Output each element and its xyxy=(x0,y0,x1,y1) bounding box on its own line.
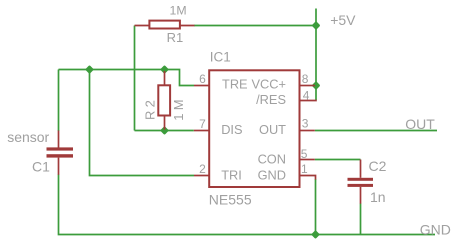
wire: pin 1 GND vertical down to rail xyxy=(315,179,317,235)
resistor R2 body xyxy=(158,85,170,115)
svg-text:VCC+: VCC+ xyxy=(252,77,287,92)
IC1 pin 8 stub (VCC+) xyxy=(300,85,316,87)
IC1 pin 3 stub (OUT) xyxy=(300,130,315,132)
svg-text:R2: R2 xyxy=(143,97,158,120)
IC1 pin 4 stub (/RES) xyxy=(300,100,317,102)
resistor R1 pins xyxy=(135,25,195,27)
resistor R2 pins xyxy=(164,71,166,130)
capacitor C2 plates xyxy=(348,178,374,181)
capacitor C1 top pin xyxy=(58,131,60,148)
svg-text:OUT: OUT xyxy=(405,116,435,132)
svg-text:2: 2 xyxy=(199,162,206,176)
svg-text:sensor: sensor xyxy=(7,129,49,145)
svg-text:GND: GND xyxy=(258,168,286,183)
svg-text:7: 7 xyxy=(199,117,206,131)
wire: CON pin 5 to C2 top xyxy=(315,159,361,161)
IC1 pin 2 stub (TRI) xyxy=(194,175,209,177)
wire: sensor rail y=69.5 with jog to pin 6 xyxy=(59,70,195,86)
svg-text:NE555: NE555 xyxy=(209,191,252,207)
svg-text:6: 6 xyxy=(199,72,206,86)
wire: +5V rail top horizontal (R1 right to +5V stub) xyxy=(194,25,316,27)
capacitor C2 top pin xyxy=(360,160,362,178)
junction: sensor rail to TRI xyxy=(85,65,94,74)
wire: DIS horizontal rail y=130.5 xyxy=(135,130,194,132)
svg-text:/RES: /RES xyxy=(256,92,286,107)
wire: +5V vertical stub xyxy=(315,9,317,86)
svg-text:8: 8 xyxy=(302,72,309,86)
IC1 pin 5 stub (CON) xyxy=(300,159,315,161)
svg-text:TRI: TRI xyxy=(221,168,242,183)
svg-text:4: 4 xyxy=(303,89,310,103)
junction: R1 right / +5V xyxy=(312,21,321,30)
svg-text:OUT: OUT xyxy=(259,122,286,137)
capacitor C2 bottom pin xyxy=(360,187,362,204)
svg-text:+5V: +5V xyxy=(330,12,356,28)
svg-text:1: 1 xyxy=(301,162,308,176)
wire: C1 bottom to GND rail xyxy=(59,175,436,235)
svg-text:GND: GND xyxy=(420,221,451,237)
svg-text:5: 5 xyxy=(301,147,308,161)
IC1 pin 6 stub (TRE) xyxy=(194,85,209,87)
svg-text:1n: 1n xyxy=(370,189,386,205)
svg-text:CON: CON xyxy=(258,152,286,167)
junction: R2 bottom / DIS xyxy=(160,126,169,135)
wire: C2 bottom vertical to GND rail xyxy=(360,204,362,235)
wire: OUT from pin 3 xyxy=(315,130,437,132)
junction: VCC pin 8 xyxy=(312,81,321,90)
svg-text:1M: 1M xyxy=(171,96,186,120)
svg-text:3: 3 xyxy=(302,116,309,130)
junction: pin1 to GND rail xyxy=(311,230,320,239)
wire: +5V vertical junction to pin4 xyxy=(315,85,317,100)
capacitor C1 plates xyxy=(47,147,74,150)
wire: C1 top vertical xyxy=(58,70,60,132)
op-amp/IC U1: NE555 body IC1 xyxy=(209,70,299,187)
IC1 pin 7 stub (DIS) xyxy=(194,130,209,132)
wire: junction to TRI pin 2 xyxy=(90,70,195,176)
svg-text:IC1: IC1 xyxy=(210,50,231,65)
svg-text:C2: C2 xyxy=(369,158,387,174)
svg-text:TRE: TRE xyxy=(222,77,248,92)
junction: R2 top xyxy=(160,65,169,74)
capacitor C1 bottom pin xyxy=(58,158,60,175)
svg-text:DIS: DIS xyxy=(221,122,242,137)
resistor R1 body xyxy=(149,21,180,29)
IC1 pin 1 stub (GND) with bend down xyxy=(300,176,316,180)
svg-text:1M: 1M xyxy=(170,3,187,17)
svg-text:C1: C1 xyxy=(32,158,50,174)
wire: left vertical from R1 down to DIS rail xyxy=(134,26,136,131)
svg-text:R1: R1 xyxy=(167,30,184,45)
